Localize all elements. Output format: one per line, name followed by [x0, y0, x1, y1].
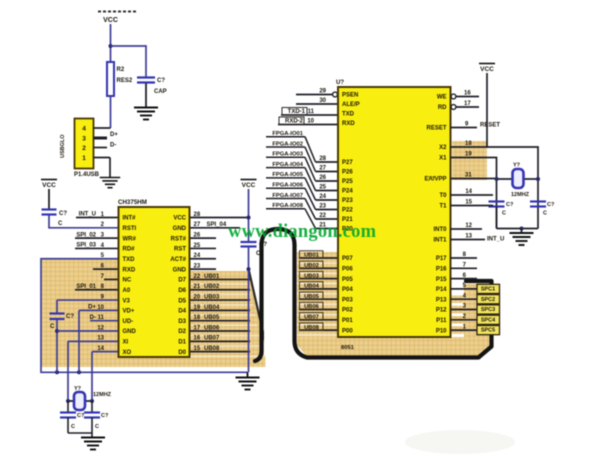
- wire: 8051 INT1 pin 13 net INT_U: [451, 239, 486, 241]
- svg-text:10: 10: [307, 119, 314, 125]
- power flag VCC right: [479, 63, 495, 65]
- svg-text:28: 28: [319, 156, 326, 162]
- labels: 8051 right pin names: [424, 95, 447, 335]
- wire: 8051 ALE pin 30 stub: [296, 103, 338, 105]
- thick outline: channel right leg sweeping around 8051 bottom: [295, 245, 492, 358]
- svg-text:15: 15: [465, 200, 472, 206]
- highlight region: big tan block left of CH375 chip: [41, 258, 119, 367]
- svg-text:SPI_04: SPI_04: [207, 222, 227, 228]
- node: crystal left junction: [495, 177, 499, 181]
- wire: USB pin 2 (D-): [94, 147, 108, 149]
- wire: caps to ground: [67, 418, 69, 434]
- svg-text:D-: D-: [90, 315, 96, 321]
- svg-text:RXD: RXD: [342, 121, 355, 127]
- node: junction cap/GND pin: [55, 329, 59, 333]
- node: junction at CH375 GND pin 23 row: [247, 267, 251, 271]
- svg-text:21: 21: [194, 284, 201, 290]
- wire: crystal node line: [497, 178, 539, 180]
- wire: CH375 data pin D3 stub (net UB05): [190, 320, 251, 322]
- wire: CH375 right pin 23 stub: [190, 268, 217, 270]
- svg-text:12: 12: [97, 325, 104, 331]
- capacitor C? on V3: [50, 314, 65, 320]
- capacitor C? decoupling middle: [241, 242, 257, 247]
- net labels FPGA-IO01..FPGA-IO08: [272, 131, 303, 209]
- svg-text:15: 15: [194, 346, 201, 352]
- wire: cap to CH375 pin 2: [49, 216, 119, 228]
- wire: branch right to cap C?: [111, 45, 147, 47]
- svg-text:X2: X2: [439, 145, 447, 151]
- wire: crystal horizontal node line: [68, 400, 92, 402]
- svg-text:22: 22: [319, 213, 326, 219]
- svg-text:P05: P05: [342, 277, 353, 283]
- svg-text:8051: 8051: [341, 345, 355, 351]
- wire: CH375 right pin 24 stub: [190, 258, 217, 260]
- wire: bus ripper diagonals FPGA to P27..P20: [305, 137, 316, 229]
- svg-text:23: 23: [194, 264, 201, 270]
- svg-text:P03: P03: [342, 297, 353, 303]
- svg-text:12: 12: [465, 223, 472, 229]
- svg-text:16: 16: [464, 91, 471, 97]
- power flag VCC middle: [241, 179, 257, 181]
- svg-text:INT1: INT1: [433, 238, 447, 244]
- wire: 8051 T0 pin 14 stub: [451, 194, 494, 196]
- svg-text:D+: D+: [88, 305, 96, 311]
- svg-text:12MHZ: 12MHZ: [93, 392, 112, 398]
- svg-text:C?: C?: [547, 202, 555, 208]
- svg-text:D4: D4: [178, 309, 186, 315]
- svg-text:PSEN: PSEN: [342, 93, 358, 99]
- power flag VCC top-left with hatch marks: [98, 11, 137, 13]
- wire: cap bottom lead: [145, 84, 147, 108]
- wire: VCC down and over to crystal right node: [487, 73, 538, 229]
- svg-text:XO: XO: [123, 350, 132, 356]
- svg-text:14: 14: [465, 189, 472, 195]
- svg-text:UB01: UB01: [304, 253, 320, 259]
- svg-text:14: 14: [97, 346, 104, 352]
- wire: CH375 pin 27 net SPI_04: [190, 227, 241, 229]
- svg-text:C?: C?: [259, 242, 267, 248]
- svg-text:RESET: RESET: [480, 123, 500, 129]
- highlight region: tan band under 8051 chip with bevel corners: [297, 337, 490, 356]
- wire: 8051 X2 pin 18: [451, 146, 488, 148]
- wire: VCC stem to cap: [48, 189, 50, 210]
- node: crystal right junction: [90, 399, 94, 403]
- svg-text:RD#: RD#: [123, 247, 136, 253]
- wire: CH375 pin 7 stub: [104, 278, 119, 280]
- svg-text:RST: RST: [174, 247, 186, 253]
- svg-text:25: 25: [319, 185, 326, 191]
- svg-text:UB01: UB01: [204, 274, 220, 280]
- svg-text:EA/VPP: EA/VPP: [424, 177, 446, 183]
- svg-text:UB04: UB04: [204, 305, 220, 311]
- svg-text:17: 17: [464, 101, 471, 107]
- svg-text:Y?: Y?: [74, 386, 82, 392]
- ground: bottom-left crystal ground: [81, 438, 105, 450]
- labels: CH375 left pin names: [123, 216, 137, 356]
- svg-text:9: 9: [465, 121, 469, 127]
- svg-text:RSTI: RSTI: [123, 226, 137, 232]
- svg-text:RESET: RESET: [426, 126, 446, 132]
- wire: CH375 pin 8 stub net SPI_01: [75, 289, 119, 291]
- svg-text:4: 4: [82, 125, 86, 132]
- wire: CH375 data pin D1 stub (net UB07): [190, 340, 251, 342]
- svg-text:SPC2: SPC2: [481, 297, 495, 303]
- svg-text:INT0: INT0: [433, 227, 447, 233]
- wire: CH375 pin 14 XO down to crystal: [92, 351, 119, 353]
- crystal Y? 12MHZ (CH375 clock): [74, 392, 85, 410]
- svg-text:T1: T1: [439, 204, 447, 210]
- wire: CH375 data pin D6 stub (net UB02): [190, 289, 251, 291]
- wire: 8051 WE pin 16 with bubble: [451, 94, 456, 99]
- wire: CH375 pin 10 (D+) down to rail: [79, 309, 119, 311]
- wire: CH375 data pin D4 stub (net UB04): [190, 309, 251, 311]
- svg-text:P13: P13: [436, 297, 447, 303]
- wire: 8051 PSEN pin 29 stub with bubble: [296, 94, 334, 96]
- svg-text:19: 19: [194, 305, 201, 311]
- wire: 8051 X1 pin 19 to crystal left node: [451, 158, 497, 229]
- wire: CH375 pin 1 stub with net label INT_U: [76, 217, 119, 219]
- svg-text:P00: P00: [342, 328, 353, 334]
- svg-text:R2: R2: [117, 67, 125, 73]
- net labels SPC boxes at 8051 P14..P10: [477, 284, 500, 334]
- svg-text:RST#: RST#: [171, 236, 187, 242]
- svg-text:UB03: UB03: [304, 273, 320, 279]
- svg-text:UB06: UB06: [204, 325, 220, 331]
- svg-text:TXD: TXD: [123, 257, 136, 263]
- svg-text:www.diangon.com: www.diangon.com: [228, 222, 377, 242]
- decorative: skip: [405, 430, 515, 454]
- svg-text:UD-: UD-: [123, 319, 134, 325]
- wire: CH375 right pin 26 stub: [190, 237, 217, 239]
- labels: 8051 left pin names: [342, 93, 360, 335]
- svg-text:INT_U: INT_U: [487, 237, 504, 243]
- wire: 8051 EA/VPP pin 31: [451, 178, 496, 180]
- svg-text:P1.4USB: P1.4USB: [74, 172, 100, 178]
- highlight region: tan box at 8051 X2/X1/EA pins: [452, 141, 487, 180]
- capacitor C? right of crystal: [91, 401, 93, 413]
- svg-text:P26: P26: [342, 170, 353, 176]
- wire: CH375 pin 3 stub net SPI_02: [75, 237, 119, 239]
- svg-text:UB03: UB03: [204, 294, 220, 300]
- svg-text:RXD-2: RXD-2: [285, 119, 304, 125]
- svg-text:D+: D+: [110, 132, 118, 138]
- svg-text:RES2: RES2: [117, 78, 133, 84]
- svg-text:D0: D0: [178, 350, 186, 356]
- svg-text:C?: C?: [157, 78, 165, 84]
- svg-text:D5: D5: [178, 298, 186, 304]
- svg-text:INT_U: INT_U: [79, 212, 96, 218]
- ground: bottom-centre ground symbol fed from rail: [247, 372, 249, 376]
- capacitor C? CAP: [137, 78, 155, 83]
- svg-text:27: 27: [194, 222, 201, 228]
- svg-text:VD+: VD+: [123, 309, 135, 315]
- wire: CH375 pin 6 RXD stub: [93, 268, 119, 270]
- svg-text:UB05: UB05: [204, 315, 220, 321]
- highlight region: tan column with UB net labels left of 8051: [297, 252, 339, 337]
- wire: 8051 RXD pin 10 net RXD-2: [278, 124, 338, 126]
- power flag VCC left (reset RC): [41, 179, 57, 181]
- svg-text:12MHZ: 12MHZ: [511, 192, 530, 198]
- ground: below USB connector pin 1: [100, 178, 120, 188]
- svg-text:30: 30: [319, 98, 326, 104]
- svg-text:C: C: [50, 324, 55, 330]
- svg-text:18: 18: [465, 141, 472, 147]
- svg-text:C?: C?: [506, 202, 514, 208]
- svg-text:VCC: VCC: [242, 182, 256, 189]
- wire: USB pin 4 to resistor: [94, 127, 111, 129]
- svg-text:SPI_02: SPI_02: [76, 232, 96, 238]
- node: junction dots on bottom ground rail: [55, 370, 59, 374]
- wire: 8051 TXD pin 11 net TXD-1: [281, 114, 338, 116]
- svg-text:11: 11: [98, 315, 105, 321]
- svg-text:22: 22: [194, 274, 201, 280]
- net labels UB01..UB08 at 8051 P0 port: [300, 251, 324, 331]
- wire: caps bottom to ground: [496, 207, 498, 229]
- wire: cap down to ground rail: [248, 247, 250, 373]
- node: crystal left junction: [66, 399, 70, 403]
- svg-text:P14: P14: [436, 287, 447, 293]
- svg-text:P17: P17: [436, 256, 447, 262]
- wire: resistor bottom lead down to USB connector pin 4: [110, 96, 112, 128]
- svg-text:SPC3: SPC3: [481, 307, 495, 313]
- svg-text:P12: P12: [436, 308, 447, 314]
- svg-text:C?: C?: [101, 413, 109, 419]
- svg-text:3: 3: [82, 135, 86, 142]
- svg-text:UB02: UB02: [304, 263, 319, 269]
- svg-text:P25: P25: [342, 179, 353, 185]
- wire: 8051 P07..P00 pin stubs: [299, 258, 338, 330]
- wire: 8051 P17..P10 pin stubs: [451, 258, 478, 330]
- svg-text:T0: T0: [439, 193, 447, 199]
- wire: VCC stem down to junction: [110, 24, 112, 62]
- svg-text:11: 11: [308, 109, 315, 115]
- capacitor C? left of crystal: [67, 401, 69, 413]
- svg-text:VCC: VCC: [42, 182, 56, 189]
- wire: CH375 right pin 25 stub: [190, 247, 217, 249]
- svg-text:26: 26: [194, 233, 201, 239]
- svg-text:P06: P06: [342, 267, 353, 273]
- svg-text:RXD: RXD: [123, 267, 136, 273]
- wire: 8051 RD pin 17 with bubble: [451, 105, 456, 110]
- svg-text:20: 20: [194, 294, 201, 300]
- wire: VCC rail down to cap: [248, 189, 250, 242]
- svg-text:13: 13: [97, 336, 104, 342]
- svg-text:D2: D2: [178, 329, 186, 335]
- svg-text:P02: P02: [342, 308, 353, 314]
- svg-text:VCC: VCC: [173, 216, 186, 222]
- svg-text:CAP: CAP: [154, 89, 167, 95]
- svg-text:16: 16: [194, 336, 201, 342]
- svg-text:SPC1: SPC1: [481, 287, 495, 293]
- labels: CH375 left pin numbers 1-14: [97, 212, 104, 352]
- net labels UB01-UB08 on CH375 data bus: [204, 274, 220, 352]
- svg-text:SPI_03: SPI_03: [76, 243, 96, 249]
- svg-text:GND: GND: [123, 329, 137, 335]
- svg-text:TXD-1: TXD-1: [288, 109, 306, 115]
- bus ripper diagonal cut edge: [249, 271, 266, 343]
- svg-text:P24: P24: [342, 189, 353, 195]
- svg-text:27: 27: [319, 166, 326, 172]
- svg-text:D3: D3: [178, 319, 186, 325]
- op IC U? 8051 body: [338, 87, 451, 337]
- svg-text:NC: NC: [123, 278, 132, 284]
- svg-text:26: 26: [319, 175, 326, 181]
- highlight region: tan column right of 8051 (P14..P10): [464, 284, 490, 337]
- svg-text:18: 18: [194, 315, 201, 321]
- highlight region: tan band under CH375 chip: [119, 345, 266, 367]
- highlight region: tan stripes right of CH375 (data bus D7..D0): [190, 271, 266, 356]
- svg-text:UB05: UB05: [304, 294, 320, 300]
- crystal Y? 12MHZ (8051 clock): [513, 169, 524, 188]
- wire: 8051 T1 pin 15 stub: [451, 205, 494, 207]
- wire: CH375 pin 9 V3 to decoupling cap: [57, 299, 119, 301]
- svg-text:13: 13: [465, 234, 472, 240]
- svg-text:VCC: VCC: [103, 17, 118, 24]
- wire: cap down to GND pin 12 row and bottom rail: [56, 320, 58, 373]
- svg-text:P23: P23: [342, 198, 353, 204]
- wire: CH375 pin 4 stub net SPI_03: [75, 247, 119, 249]
- svg-text:UB07: UB07: [204, 336, 220, 342]
- svg-text:24: 24: [194, 253, 201, 259]
- wire: CH375 data pin D7 stub (net UB01): [190, 278, 251, 280]
- wire: 8051 INT0 pin 12 stub: [451, 228, 483, 230]
- svg-text:P15: P15: [436, 277, 447, 283]
- thick outline: highlight channel tower left leg and dome: [255, 229, 295, 361]
- svg-text:28: 28: [194, 212, 201, 218]
- wire: CH375 pin 28 VCC to rail: [190, 217, 250, 219]
- svg-text:23: 23: [319, 204, 326, 210]
- svg-text:UB06: UB06: [304, 304, 320, 310]
- svg-text:VCC: VCC: [480, 66, 494, 73]
- svg-text:D7: D7: [178, 278, 186, 284]
- svg-text:2: 2: [82, 145, 86, 152]
- node: crystal right junction: [536, 177, 540, 181]
- svg-text:INT#: INT#: [123, 216, 137, 222]
- svg-text:25: 25: [194, 243, 201, 249]
- svg-text:10: 10: [97, 305, 104, 311]
- capacitor C? left of 8051 crystal: [489, 202, 505, 207]
- labels: CH375 right pin numbers 28-15: [194, 212, 201, 352]
- svg-text:ACT#: ACT#: [170, 257, 186, 263]
- svg-text:GND: GND: [173, 267, 187, 273]
- svg-text:UB08: UB08: [204, 346, 220, 352]
- wire: CH375 data pin D2 stub (net UB06): [190, 330, 251, 332]
- wire: CH375 pin 12 GND stub: [57, 330, 119, 332]
- svg-text:V3: V3: [123, 298, 131, 304]
- wire: CH375 pin 11 (D-) stub: [90, 320, 119, 322]
- op IC U_CH375 body: [119, 207, 190, 357]
- svg-text:D6: D6: [178, 288, 186, 294]
- svg-text:C: C: [543, 211, 547, 217]
- svg-text:P07: P07: [342, 256, 353, 262]
- svg-text:Y?: Y?: [513, 163, 521, 169]
- svg-text:SPI_01: SPI_01: [76, 284, 96, 290]
- svg-text:SPC5: SPC5: [481, 328, 495, 334]
- svg-text:TXD: TXD: [342, 112, 355, 118]
- capacitor C? on CH375 RSTI pin: [42, 210, 57, 215]
- wire: long ground loop around left tan block (pin5 TXD down and across bottom): [41, 259, 248, 373]
- wire: CH375 pin 13 XI down to crystal: [68, 340, 119, 342]
- svg-text:P16: P16: [436, 267, 447, 273]
- svg-text:WR#: WR#: [123, 236, 137, 242]
- svg-text:UB04: UB04: [304, 284, 320, 290]
- connector P1.4USB (USB socket): [75, 119, 94, 169]
- ground: below cap C?: [134, 108, 158, 120]
- labels: 8051 pins 28..21 numbers: [319, 156, 326, 229]
- svg-text:UB08: UB08: [304, 325, 320, 331]
- white interior of highlight channel (tower between chips): [264, 230, 293, 356]
- svg-text:U?: U?: [336, 80, 344, 86]
- svg-text:C?: C?: [59, 211, 67, 217]
- svg-text:P27: P27: [342, 160, 353, 166]
- svg-text:P11: P11: [436, 318, 447, 324]
- wire: FPGA label stub underlines: [266, 137, 305, 209]
- svg-text:D1: D1: [178, 340, 186, 346]
- wire: CH375 data pin D0 stub (net UB08): [190, 351, 251, 353]
- svg-text:SPC4: SPC4: [481, 317, 496, 323]
- svg-text:C: C: [256, 251, 261, 257]
- node: junction below VCC: [109, 44, 113, 48]
- svg-text:29: 29: [319, 89, 326, 95]
- node: ground junction under crystal: [520, 227, 524, 231]
- labels: 8051 pins 8..1 numbers: [463, 252, 467, 330]
- svg-text:P10: P10: [436, 328, 447, 334]
- svg-text:ALE/P: ALE/P: [342, 102, 360, 108]
- svg-text:24: 24: [319, 194, 326, 200]
- svg-text:UB07: UB07: [304, 315, 319, 321]
- svg-text:C: C: [502, 211, 506, 217]
- svg-text:1: 1: [82, 155, 86, 162]
- svg-text:A0: A0: [123, 288, 131, 294]
- labels: CH375 right pin names: [170, 216, 186, 356]
- capacitor C? right of 8051 crystal: [530, 202, 546, 207]
- wire: CH375 data pin D5 stub (net UB03): [190, 299, 251, 301]
- svg-text:C: C: [71, 424, 75, 430]
- svg-text:CH375HM: CH375HM: [118, 199, 147, 206]
- wire: 8051 RESET pin 9 net RESET: [451, 127, 478, 129]
- svg-text:C?: C?: [77, 413, 85, 419]
- svg-text:RD: RD: [438, 105, 447, 111]
- svg-text:P04: P04: [342, 287, 353, 293]
- svg-text:17: 17: [194, 325, 201, 331]
- svg-text:USBGLO: USBGLO: [60, 134, 66, 158]
- svg-text:C: C: [95, 424, 99, 430]
- svg-text:P22: P22: [342, 208, 353, 214]
- svg-text:WE: WE: [437, 95, 447, 101]
- wire: USB pin 3 (D+): [94, 137, 108, 140]
- svg-text:P01: P01: [342, 318, 353, 324]
- svg-text:C?: C?: [66, 314, 74, 320]
- wire: USB pin 1 to ground: [94, 157, 111, 159]
- svg-text:31: 31: [465, 172, 472, 178]
- svg-text:X1: X1: [439, 156, 447, 162]
- resistor R2 RES2 (USB pull-up): [107, 62, 114, 96]
- svg-text:GND: GND: [173, 226, 187, 232]
- ground: 8051 crystal ground: [521, 229, 523, 233]
- svg-text:UB02: UB02: [204, 284, 220, 290]
- svg-text:19: 19: [465, 151, 472, 157]
- node: junction at CH375 VCC pin wire: [247, 216, 251, 220]
- svg-text:C: C: [58, 221, 63, 227]
- wire: 8051 P27..P20 pin stubs: [316, 162, 339, 229]
- svg-text:D-: D-: [110, 143, 116, 149]
- svg-text:XI: XI: [123, 340, 129, 346]
